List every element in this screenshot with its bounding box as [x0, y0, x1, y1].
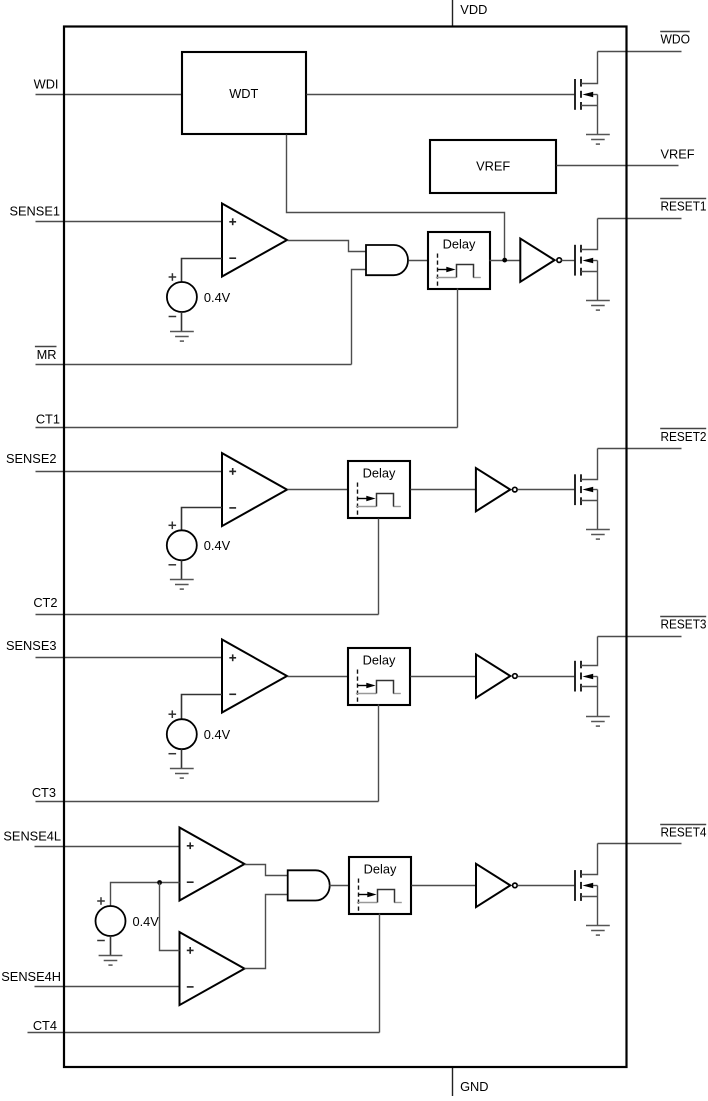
svg-text:SENSE3: SENSE3 [6, 638, 57, 653]
svg-text:SENSE1: SENSE1 [9, 203, 60, 218]
overline RESET2 [660, 428, 706, 430]
svg-text:0.4V: 0.4V [204, 727, 231, 742]
svg-text:SENSE4H: SENSE4H [1, 969, 61, 984]
inverter G4 [476, 864, 517, 907]
wire CT2 to D2 [378, 519, 380, 615]
node V4 reference junction [157, 880, 162, 885]
wire CT4 input [28, 1032, 380, 1034]
svg-text:SENSE2: SENSE2 [6, 451, 57, 466]
comparator U3 (SENSE3) [222, 640, 287, 713]
delay block D4 [349, 857, 411, 914]
and-gate A4 [288, 870, 330, 900]
ground Q1 source [586, 301, 610, 311]
node reset1 junction [502, 258, 507, 263]
svg-text:WDI: WDI [34, 77, 59, 92]
wire CT3 input [36, 801, 379, 803]
block WDT [182, 52, 306, 134]
ground V4 [99, 956, 123, 966]
wire U3 output to delay D3 [288, 676, 349, 678]
transistor WDO open-drain FET [575, 52, 598, 135]
comparator U1 (SENSE1) [222, 204, 287, 277]
transistor Q4 (RESET4) [575, 844, 598, 926]
wire SENSE4L input [35, 846, 181, 848]
overline RESET4 [660, 824, 706, 826]
svg-text:RESET2: RESET2 [661, 429, 707, 444]
svg-text:Delay: Delay [363, 653, 396, 668]
inverter G2 [476, 468, 517, 511]
wire V4 to U4A minus [111, 883, 180, 907]
svg-text:0.4V: 0.4V [133, 914, 160, 929]
source V2 0.4V [167, 522, 231, 565]
wire WDO output [598, 51, 682, 53]
wire SENSE4H input [35, 986, 181, 988]
pin wire GND [452, 1067, 454, 1096]
ground Q4 source [586, 926, 610, 936]
svg-text:VREF: VREF [476, 159, 510, 174]
wire D1 output to inverter [490, 260, 521, 262]
svg-text:GND: GND [460, 1079, 488, 1094]
inverter G1 [520, 239, 561, 282]
ground Q2 source [586, 530, 610, 540]
wire U2 minus input from V2 [182, 508, 223, 531]
transistor Q1 (RESET1) [575, 219, 598, 301]
wire VREF output [557, 165, 679, 167]
wire CT1 input [36, 427, 458, 429]
wire U1 output to AND A1 [288, 241, 367, 252]
source V3 0.4V [167, 710, 231, 753]
svg-text:CT2: CT2 [33, 595, 57, 610]
wire CT3 to D3 [378, 705, 380, 802]
wire A4 output to delay D4 [330, 885, 350, 887]
svg-text:RESET3: RESET3 [661, 616, 707, 631]
wire CT4 to D4 [379, 914, 381, 1033]
svg-text:0.4V: 0.4V [204, 538, 231, 553]
block VREF [430, 140, 556, 193]
ground V2 [170, 580, 194, 590]
wire SENSE1 input [36, 221, 223, 223]
wire MR to AND A1 [352, 270, 367, 365]
delay block D2 [348, 461, 410, 518]
wire A1 output to delay D1 [409, 260, 428, 262]
pin wire VDD [452, 0, 454, 27]
transistor Q3 (RESET3) [575, 637, 598, 717]
IC boundary [64, 27, 627, 1068]
svg-text:RESET4: RESET4 [661, 825, 707, 840]
wire V3 to ground [181, 749, 183, 768]
wire V1 to ground [181, 312, 183, 331]
wire D2 output to inverter [411, 489, 476, 491]
wire V2 to ground [181, 560, 183, 579]
svg-text:RESET1: RESET1 [661, 198, 707, 213]
wire D4 output to inverter [412, 885, 477, 887]
svg-text:CT4: CT4 [33, 1018, 57, 1033]
svg-text:VREF: VREF [661, 147, 695, 162]
ground V3 [170, 769, 194, 779]
and-gate A1 [366, 245, 408, 275]
source V1 0.4V [167, 273, 231, 316]
svg-text:Delay: Delay [443, 237, 476, 252]
comparator U4B (SENSE4H) [180, 932, 245, 1005]
svg-text:WDT: WDT [229, 86, 258, 101]
wire G2 to Q2 gate [518, 489, 576, 491]
wire WDT output to WDO gate [307, 94, 576, 96]
wire U1 minus input from V1 [182, 259, 223, 283]
wire U4B output to AND A4 [245, 895, 288, 969]
ground WDO FET source [586, 135, 610, 145]
svg-text:Delay: Delay [364, 862, 397, 877]
wire U2 output to delay D2 [288, 489, 349, 491]
wire V4 to ground [110, 936, 112, 955]
svg-text:VDD: VDD [460, 2, 487, 17]
wire SENSE3 input [36, 657, 223, 659]
overline RESET1 [660, 198, 706, 200]
delay block D1 [428, 232, 490, 289]
wire MR input [36, 364, 352, 366]
wire U4A output to AND A4 [245, 865, 288, 876]
svg-text:Delay: Delay [363, 466, 396, 481]
overline WDO [660, 31, 690, 33]
wire RESET1 output [598, 218, 682, 220]
overline MR [35, 346, 57, 348]
wire SENSE2 input [36, 471, 223, 473]
wire CT1 to D1 [457, 289, 459, 428]
inverter G3 [476, 654, 517, 697]
svg-text:SENSE4L: SENSE4L [3, 828, 61, 843]
svg-text:CT1: CT1 [36, 412, 60, 427]
transistor Q2 (RESET2) [575, 449, 598, 530]
source V4 0.4V [96, 897, 160, 940]
wire G1 to Q1 gate [562, 260, 576, 262]
overline RESET3 [660, 616, 706, 618]
comparator U2 (SENSE2) [222, 453, 287, 526]
wire U3 minus input from V3 [182, 695, 223, 720]
delay block D3 [348, 648, 410, 705]
comparator U4A (SENSE4L) [180, 828, 245, 901]
wire WDT to reset1 node [287, 135, 505, 261]
wire RESET2 output [598, 448, 682, 450]
wire CT2 input [36, 614, 379, 616]
wire junction to U4B plus [160, 883, 180, 951]
svg-text:WDO: WDO [661, 32, 691, 47]
wire RESET4 output [598, 843, 682, 845]
svg-text:CT3: CT3 [32, 785, 56, 800]
wire RESET3 output [598, 636, 682, 638]
svg-text:MR: MR [37, 347, 57, 362]
wire WDI input [36, 94, 182, 96]
svg-text:0.4V: 0.4V [204, 290, 231, 305]
wire D3 output to inverter [411, 676, 477, 678]
wire G4 to Q4 gate [518, 885, 576, 887]
wire G3 to Q3 gate [518, 676, 576, 678]
ground Q3 source [586, 717, 610, 727]
ground V1 [170, 332, 194, 342]
